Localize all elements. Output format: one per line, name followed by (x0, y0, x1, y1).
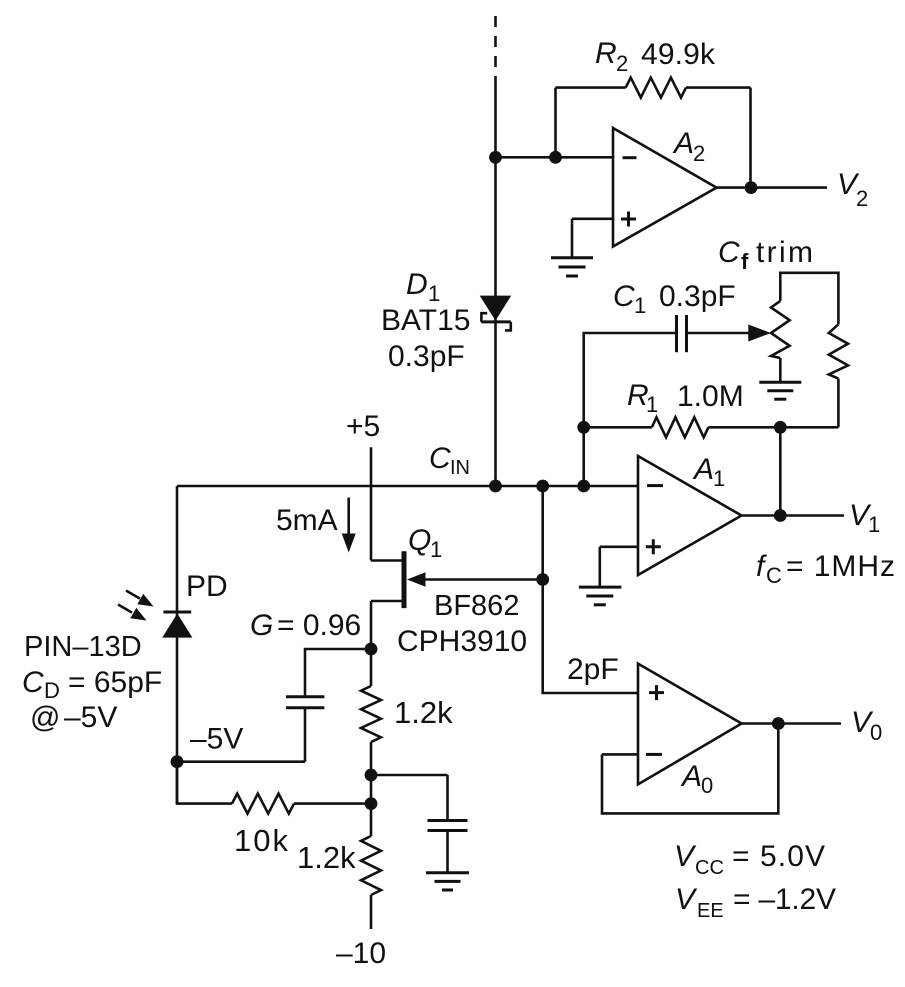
node R2 branch (549, 151, 562, 164)
svg-text:1.0M: 1.0M (677, 380, 744, 413)
wire A1 plus to ground (600, 547, 638, 587)
op-amp A1 plus sign (646, 539, 661, 554)
svg-text:2: 2 (693, 141, 705, 166)
wire A2 plus input to ground (572, 219, 613, 258)
resistor 1.2k upper (361, 649, 381, 775)
svg-text:CC: CC (695, 857, 724, 879)
label V0 (851, 706, 882, 745)
label D1 (406, 268, 440, 306)
wire vertical from stub through D1 to CIN node (494, 83, 497, 486)
svg-text:10k: 10k (234, 823, 289, 858)
svg-text:2: 2 (616, 51, 628, 76)
svg-text:V: V (674, 840, 697, 873)
wire +5 supply vertical (370, 447, 373, 560)
svg-text:1: 1 (634, 293, 646, 318)
label A1 (692, 453, 725, 491)
node 10k junction (365, 797, 378, 810)
svg-text:= 1MHz: = 1MHz (786, 550, 895, 583)
svg-text:2: 2 (856, 186, 868, 211)
svg-text:1.2k: 1.2k (297, 840, 356, 875)
svg-text:–5V: –5V (64, 701, 117, 734)
svg-text:1: 1 (713, 466, 725, 491)
svg-text:A: A (692, 453, 714, 486)
svg-text:A: A (680, 760, 702, 793)
wire R1 right segment (708, 426, 838, 429)
wire pot bottom lead (779, 358, 782, 382)
node R1 right (774, 421, 787, 434)
capacitor C1 (677, 315, 687, 352)
node A0 output (772, 717, 785, 730)
node R1 left (577, 421, 590, 434)
op-amp A1 minus sign (647, 484, 663, 487)
op-amp A2 plus sign (621, 212, 636, 227)
svg-text:PIN–13D: PIN–13D (24, 631, 142, 663)
svg-text:1: 1 (646, 392, 658, 417)
svg-text:49.9k: 49.9k (641, 38, 716, 71)
svg-text:5mA: 5mA (276, 504, 338, 537)
svg-text:C: C (429, 442, 451, 475)
svg-text:–5V: –5V (190, 723, 243, 756)
svg-text:1: 1 (868, 512, 880, 537)
svg-text:0: 0 (701, 773, 713, 798)
wire R2 left segment (556, 86, 626, 89)
wire 10k left segment (177, 762, 232, 804)
label R1 1.0M (627, 379, 744, 417)
wire Cf right resistor bottom lead (837, 379, 840, 428)
wire dashed input stub (494, 16, 497, 83)
resistor R2 (626, 78, 686, 98)
svg-text:G: G (250, 609, 273, 642)
node D1 bottom (489, 480, 502, 493)
label CIN (429, 442, 470, 479)
svg-text:1: 1 (430, 537, 442, 562)
op-amp A2 minus sign (623, 156, 637, 159)
svg-text:= 65pF: = 65pF (68, 666, 162, 699)
resistor 1.2k lower (361, 804, 381, 929)
label V2 (837, 168, 868, 211)
wire C1 left (584, 333, 677, 486)
wire R2 left vertical branch (554, 88, 557, 158)
svg-text:1: 1 (428, 281, 440, 306)
wire A2 inverting input horizontal (496, 156, 614, 159)
photodiode PD (162, 612, 192, 638)
node gate branch (536, 480, 549, 493)
label V1 (849, 499, 880, 537)
svg-text:Q: Q (408, 524, 431, 557)
svg-text:1.2k: 1.2k (394, 695, 453, 730)
5mA current arrow (342, 498, 356, 553)
label @ -5V (30, 701, 117, 734)
wire A2 output (717, 186, 828, 189)
svg-text:–10: –10 (336, 937, 386, 970)
node -5V junction (171, 755, 184, 768)
svg-text:C: C (22, 666, 44, 699)
wire node to output cap (371, 775, 448, 821)
wire R1 left segment (584, 426, 652, 429)
potentiometer Cf trim left (771, 301, 790, 358)
svg-text:CPH3910: CPH3910 (397, 625, 527, 658)
ground A1 (579, 587, 622, 605)
ground output cap (426, 873, 469, 890)
label R2 49.9k (595, 37, 716, 76)
node gate line branch (536, 573, 549, 586)
svg-text:BAT15: BAT15 (381, 304, 471, 337)
svg-text:BF862: BF862 (434, 590, 519, 622)
wire Q1 gate with arrow (407, 572, 543, 586)
label fC = 1MHz (756, 550, 895, 588)
transistor Q1 BF862 (371, 551, 404, 649)
svg-text:@: @ (30, 701, 60, 734)
node A1 output (774, 509, 787, 522)
ground A2 (551, 258, 593, 276)
svg-text:R: R (595, 37, 617, 70)
wire between nodes (370, 775, 373, 804)
label A2 (672, 127, 705, 166)
wire A1 output (742, 514, 845, 517)
light arrow upper (126, 591, 154, 607)
node R1 branch (577, 480, 590, 493)
wire R1 node to A1 output (779, 427, 782, 515)
wire summing node horizontal (177, 485, 638, 488)
resistor R1 (652, 417, 709, 437)
svg-text:C: C (766, 563, 782, 588)
label CD = 65pF (22, 666, 162, 703)
label Q1 (408, 524, 442, 562)
node A2 input junction (489, 151, 502, 164)
svg-text:0.3pF: 0.3pF (659, 280, 736, 313)
svg-text:IN: IN (450, 457, 470, 479)
node A2 output (745, 181, 758, 194)
svg-text:V: V (675, 883, 698, 916)
label VCC = 5.0V (674, 840, 825, 879)
node below 1.2k (365, 769, 378, 782)
op-amp A2 (613, 128, 717, 247)
wire A0 feedback (602, 724, 778, 814)
svg-text:A: A (672, 127, 694, 160)
svg-text:0.3pF: 0.3pF (388, 340, 465, 373)
light arrow lower (118, 605, 147, 621)
svg-text:D: D (44, 678, 60, 703)
op-amp A0 minus sign (646, 753, 662, 756)
svg-text:f: f (741, 249, 749, 274)
svg-text:PD: PD (186, 570, 228, 603)
diode D1 BAT15 (480, 296, 512, 331)
op-amp A0 plus sign (649, 685, 664, 700)
wire Cf trim top (780, 273, 838, 325)
wire 10k right segment (294, 802, 371, 805)
capacitor output to ground (428, 821, 468, 831)
svg-text:EE: EE (697, 900, 724, 922)
wire bypass cap top to source node (305, 649, 371, 697)
wire R2 right vertical to A2 output (749, 88, 752, 188)
wire cap to ground (446, 831, 449, 873)
resistor Cf trim right (829, 324, 848, 378)
svg-text:C: C (718, 236, 740, 269)
op-amp A1 (638, 456, 742, 575)
resistor 10k (232, 794, 294, 814)
capacitor source bypass (286, 697, 324, 708)
wire gate vertical to A0 plus (543, 486, 638, 693)
node source (365, 643, 378, 656)
wire left cathode vertical (176, 486, 179, 804)
potentiometer wiper arrow (688, 325, 771, 342)
svg-text:0: 0 (870, 720, 882, 745)
op-amp A0 (638, 664, 742, 785)
svg-text:C: C (613, 280, 635, 313)
wire R2 right segment (686, 86, 751, 89)
svg-text:= –1.2V: = –1.2V (733, 883, 836, 916)
label A0 (680, 760, 713, 798)
label VEE = -1.2V (675, 883, 836, 922)
svg-text:= 0.96: = 0.96 (277, 609, 361, 642)
label Cf trim (718, 236, 813, 274)
wire A0 output (742, 722, 841, 725)
wire -5V to bypass cap (177, 708, 305, 762)
svg-text:D: D (406, 268, 428, 301)
ground pot (759, 382, 801, 399)
label C1 0.3pF (613, 280, 736, 318)
svg-text:= 5.0V: = 5.0V (732, 840, 825, 873)
label G = 0.96 (250, 609, 361, 642)
svg-text:2pF: 2pF (567, 653, 619, 686)
svg-text:+5: +5 (346, 410, 380, 443)
